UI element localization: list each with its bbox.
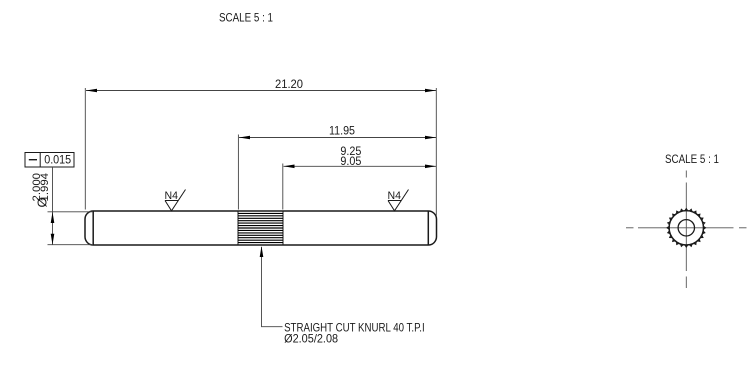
end view centerline vertical	[685, 171, 687, 289]
leader to knurl note	[262, 247, 283, 327]
svg-text:0.015: 0.015	[44, 155, 71, 167]
svg-text:N4: N4	[388, 190, 402, 202]
svg-text:N4: N4	[165, 190, 179, 202]
diameter dimension line (vertical, left)	[48, 167, 94, 245]
svg-text:1.994: 1.994	[39, 173, 51, 202]
dimension 11.95	[238, 135, 436, 210]
diameter text Ø 2.000/1.994 (rotated)	[35, 197, 50, 207]
end view knurl teeth	[667, 209, 705, 247]
end view body circle	[669, 211, 703, 245]
surface finish symbol N4 (left)	[165, 190, 186, 211]
svg-text:Ø2.05/2.08: Ø2.05/2.08	[284, 332, 338, 346]
end view inner circle	[678, 220, 694, 236]
svg-text:SCALE 5 : 1: SCALE 5 : 1	[665, 152, 719, 166]
surface finish symbol N4 (right)	[388, 190, 409, 211]
dimension 9.25 / 9.05	[283, 164, 436, 210]
dimension 21.20	[85, 88, 436, 216]
knurl band edges	[238, 211, 283, 245]
svg-text:9.05: 9.05	[340, 154, 361, 168]
svg-text:21.20: 21.20	[275, 77, 303, 91]
svg-text:11.95: 11.95	[329, 124, 355, 138]
knurl hatch lines	[238, 213, 283, 242]
part outline (pin body with domed ends)	[85, 211, 437, 245]
svg-text:SCALE 5 : 1: SCALE 5 : 1	[219, 11, 273, 25]
end view centerline horizontal	[626, 227, 747, 229]
feature control frame (straightness 0.015)	[25, 153, 74, 168]
